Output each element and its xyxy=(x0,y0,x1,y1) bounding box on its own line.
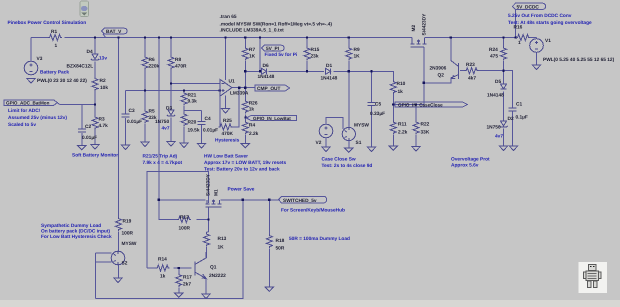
wire C4 branch xyxy=(201,111,203,144)
switch S1 xyxy=(342,127,355,140)
svg-text:D4: D4 xyxy=(87,49,93,55)
wire 5V_DCDC label tick xyxy=(515,9,517,37)
svg-text:470K: 470K xyxy=(222,131,234,137)
wire C2 branch xyxy=(81,105,83,146)
svg-text:.INCLUDE LM339A.5_1_0.txt: .INCLUDE LM339A.5_1_0.txt xyxy=(220,28,285,34)
svg-text:1: 1 xyxy=(55,43,58,49)
wire R18 column x=269.4 xyxy=(268,200,270,287)
wire D5 D2 chain xyxy=(503,71,505,146)
resistor R25 xyxy=(219,124,233,130)
svg-text:R25: R25 xyxy=(223,118,232,124)
resistor R24 xyxy=(501,47,507,61)
wire U1 plus-ref row xyxy=(171,83,220,85)
svg-text:Pinebox Power Control Simulati: Pinebox Power Control Simulation xyxy=(8,20,87,26)
svg-text:220k: 220k xyxy=(149,64,160,70)
svg-text:R23: R23 xyxy=(466,62,475,68)
svg-text:33K: 33K xyxy=(421,130,430,136)
svg-text:Approx 17v = LOW BATT, 19v res: Approx 17v = LOW BATT, 19v resets xyxy=(204,160,286,166)
wire Q1 emitter drop xyxy=(205,279,207,294)
svg-text:R6: R6 xyxy=(149,57,155,63)
svg-text:R1: R1 xyxy=(51,29,57,35)
svg-text:R4: R4 xyxy=(249,123,255,129)
svg-text:U1: U1 xyxy=(229,79,235,85)
svg-text:0.01µF: 0.01µF xyxy=(127,119,142,125)
svg-text:R18: R18 xyxy=(276,238,285,244)
ground under C5 xyxy=(367,147,375,151)
svg-text:0.1µF: 0.1µF xyxy=(516,115,528,121)
svg-text:1K: 1K xyxy=(354,54,361,60)
svg-text:1K: 1K xyxy=(249,54,256,60)
wire R22 column x=416 xyxy=(415,105,417,147)
resistor R15 xyxy=(304,47,310,61)
svg-text:Overvoltage Prot: Overvoltage Prot xyxy=(451,157,490,163)
svg-text:V1: V1 xyxy=(545,38,551,44)
svg-text:M2: M2 xyxy=(411,25,417,32)
svg-text:Test: 2s to 4s close 9d: Test: 2s to 4s close 9d xyxy=(322,163,373,169)
ground under C4 xyxy=(197,144,205,148)
svg-text:Fixed 5v for Pi: Fixed 5v for Pi xyxy=(265,52,298,58)
resistor R21 xyxy=(181,92,187,106)
transistor Q1 xyxy=(195,252,206,279)
wire ground return bottom rail xyxy=(96,200,243,299)
svg-text:R19: R19 xyxy=(123,219,132,225)
resistor R9 xyxy=(346,47,352,61)
node 5V_DCDC flag xyxy=(513,3,546,10)
ground under R22 xyxy=(412,147,420,151)
svg-text:PWL(0 5.25 40 5.25 55 12 65 12: PWL(0 5.25 40 5.25 55 12 65 12) xyxy=(543,57,615,63)
svg-text:1N750: 1N750 xyxy=(487,125,501,131)
ground under R5 xyxy=(141,142,149,146)
wire 5v row y=71.3 xyxy=(245,71,393,80)
capacitor C5 xyxy=(368,103,376,106)
svg-text:R8: R8 xyxy=(175,57,181,63)
wire U1 V- to ground xyxy=(225,96,227,109)
wire R9 S1 column x=348.8 xyxy=(348,38,350,149)
svg-text:2.2k: 2.2k xyxy=(249,131,259,137)
ground under C1 xyxy=(509,146,517,150)
ground under V3 xyxy=(27,79,35,83)
svg-text:0.01µF: 0.01µF xyxy=(82,135,97,141)
wire R8 D3 column x=171 xyxy=(170,38,172,142)
svg-text:1N4148: 1N4148 xyxy=(321,76,338,82)
svg-text:Si4423DY: Si4423DY xyxy=(422,13,428,36)
svg-text:D1: D1 xyxy=(326,63,332,69)
svg-text:Case Close Sw: Case Close Sw xyxy=(322,157,356,163)
wire M2 gate drop x=423.8 xyxy=(423,47,425,105)
svg-text:MYSW: MYSW xyxy=(122,241,137,247)
svg-text:Power Save: Power Save xyxy=(228,187,255,193)
svg-text:V3: V3 xyxy=(37,56,43,62)
node 5V_PI flag xyxy=(262,45,285,52)
node GPIO_IN_LowBat flag xyxy=(246,115,296,121)
svg-text:PWL(0 23 30 12 40 22): PWL(0 23 30 12 40 22) xyxy=(37,78,87,84)
svg-text:Test: Battery 20v to 12v and b: Test: Battery 20v to 12v and back xyxy=(204,167,280,173)
svg-text:0.33µF: 0.33µF xyxy=(370,111,385,117)
ground under C3 xyxy=(121,145,129,149)
svg-text:BZX84C12L: BZX84C12L xyxy=(67,64,94,70)
svg-text:1: 1 xyxy=(518,40,521,46)
svg-text:CMP_OUT: CMP_OUT xyxy=(257,86,281,92)
resistor R18 xyxy=(266,234,272,248)
svg-text:2N3906: 2N3906 xyxy=(430,66,447,72)
ground under R11 xyxy=(389,146,397,150)
svg-text:Sympathetic Dummy Load: Sympathetic Dummy Load xyxy=(41,223,101,229)
svg-text:SWITCHED_5v: SWITCHED_5v xyxy=(283,198,317,204)
svg-text:S2: S2 xyxy=(122,261,128,267)
svg-text:100R: 100R xyxy=(122,231,134,237)
resistor R13 xyxy=(204,233,210,247)
svg-text:1k: 1k xyxy=(398,89,404,95)
svg-text:D6: D6 xyxy=(263,63,269,69)
wire R6 R5 column x=145 xyxy=(144,38,146,143)
svg-text:4v7: 4v7 xyxy=(495,134,503,140)
svg-text:R3: R3 xyxy=(99,117,105,123)
svg-text:Soft Battery Monitor: Soft Battery Monitor xyxy=(72,153,118,159)
wire U1 output to CMP_OUT xyxy=(232,87,255,89)
resistor R20 xyxy=(181,113,187,127)
resistor R22 xyxy=(413,121,419,135)
svg-text:C3: C3 xyxy=(129,108,135,114)
wire V2 to S1 control xyxy=(326,118,343,148)
svg-text:7.9k x 4 = 4.7kpot: 7.9k x 4 = 4.7kpot xyxy=(143,160,183,166)
wire Q2 emitter from bus xyxy=(450,38,452,61)
wire R21 R20 column x=184 xyxy=(183,91,185,144)
svg-text:4v7: 4v7 xyxy=(162,126,170,132)
svg-text:100R: 100R xyxy=(179,226,191,232)
resistor R2 xyxy=(92,77,98,91)
ground under R3 xyxy=(91,145,99,149)
resistor R16 xyxy=(516,35,530,41)
svg-text:50R: 50R xyxy=(276,246,285,252)
resistor R7 xyxy=(242,47,248,61)
svg-text:R13: R13 xyxy=(218,236,227,242)
svg-text:470R: 470R xyxy=(175,64,187,70)
svg-text:1N750: 1N750 xyxy=(155,119,169,125)
wire Q2 collector to M2 gate xyxy=(424,78,451,83)
diode D6 xyxy=(262,68,267,74)
svg-text:1k: 1k xyxy=(160,274,166,280)
wire R10 R11 column x=393.3 xyxy=(392,94,394,147)
svg-text:D5: D5 xyxy=(495,79,501,85)
capacitor C3 xyxy=(122,114,130,117)
capacitor C1 xyxy=(509,108,517,111)
ground under S1 xyxy=(345,148,353,152)
wire C3 branch xyxy=(125,91,127,146)
ground under V1 xyxy=(532,65,540,69)
wire R15 column x=307 xyxy=(306,38,308,72)
wire C1 branch xyxy=(504,71,513,146)
svg-text:2N2222: 2N2222 xyxy=(209,273,226,279)
svg-text:5V_PI: 5V_PI xyxy=(266,46,280,52)
wire R17 branch xyxy=(178,268,180,293)
svg-text:R2: R2 xyxy=(100,78,106,84)
svg-text:LM339A: LM339A xyxy=(230,91,249,97)
resistor R1 xyxy=(48,35,62,41)
resistor R6 xyxy=(142,56,148,70)
wire S2 control stubs and left drop xyxy=(96,253,112,299)
svg-text:M1: M1 xyxy=(214,189,220,196)
svg-text:5V_DCDC: 5V_DCDC xyxy=(517,4,540,10)
svg-text:D2: D2 xyxy=(508,116,514,122)
svg-text:10k: 10k xyxy=(100,85,108,91)
resistor R23 xyxy=(465,68,479,74)
robot watermark icon xyxy=(579,262,608,293)
svg-text:1K: 1K xyxy=(218,245,225,251)
wire R21R20 node to C4 row xyxy=(184,110,202,112)
svg-text:R15: R15 xyxy=(311,47,320,53)
svg-text:R22: R22 xyxy=(421,122,430,128)
svg-text:C5: C5 xyxy=(375,102,381,108)
svg-text:C1: C1 xyxy=(516,102,522,108)
svg-text:R20: R20 xyxy=(188,120,197,126)
diode D1 xyxy=(326,68,331,74)
ground under S2 xyxy=(114,278,122,282)
wire R24 column x=503.5 xyxy=(503,38,505,71)
voltage source V2 xyxy=(319,124,333,138)
wire R23 to overvoltage node xyxy=(479,70,504,72)
switch S2 xyxy=(111,251,125,265)
svg-text:Battery Pack: Battery Pack xyxy=(40,70,69,76)
svg-text:On battery pack (DC/DC input): On battery pack (DC/DC input) xyxy=(41,229,110,235)
svg-text:GPIO_IN_LowBat: GPIO_IN_LowBat xyxy=(253,116,291,121)
svg-text:For Low Batt Hysteresis Check: For Low Batt Hysteresis Check xyxy=(41,234,112,240)
svg-text:R21: R21 xyxy=(188,93,197,99)
svg-text:R10: R10 xyxy=(397,81,406,87)
toolbar icon top xyxy=(80,1,89,17)
mosfet M1 xyxy=(206,200,222,207)
svg-text:C4: C4 xyxy=(205,116,211,122)
node SWITCHED_5v flag xyxy=(279,196,327,204)
svg-text:Approx 5.6v: Approx 5.6v xyxy=(451,163,479,169)
wire Q2 base to R23 xyxy=(460,70,464,72)
svg-text:Q1: Q1 xyxy=(210,265,217,271)
resistor R12 xyxy=(177,217,191,223)
svg-text:GPIO_IN_CaseClose: GPIO_IN_CaseClose xyxy=(398,103,443,108)
svg-text:R14: R14 xyxy=(158,257,167,263)
svg-text:BAT_V: BAT_V xyxy=(106,29,122,35)
svg-text:Q2: Q2 xyxy=(438,73,445,79)
zener D2 xyxy=(499,121,507,127)
svg-text:1N4148: 1N4148 xyxy=(258,74,275,80)
svg-text:.tran 65: .tran 65 xyxy=(220,14,237,20)
svg-text:13v: 13v xyxy=(99,56,107,62)
resistor R11 xyxy=(390,121,396,135)
svg-text:Scaled to 5v: Scaled to 5v xyxy=(8,122,36,128)
svg-text:Test: At 48s starts going over: Test: At 48s starts going overvoltage xyxy=(508,20,592,26)
svg-text:4k7: 4k7 xyxy=(468,76,476,82)
resistor R3 xyxy=(92,116,98,130)
ground under D2 xyxy=(499,146,507,150)
mosfet M2 xyxy=(411,38,427,48)
ground under R18 xyxy=(265,287,273,291)
svg-text:4.7k: 4.7k xyxy=(99,123,109,129)
voltage source V3 xyxy=(24,61,38,75)
resistor R14 xyxy=(156,265,170,271)
svg-text:1N4148: 1N4148 xyxy=(487,93,504,99)
svg-text:D3: D3 xyxy=(166,106,172,112)
resistor R19 xyxy=(116,217,122,231)
svg-text:R26: R26 xyxy=(249,101,258,107)
wire ADC label row xyxy=(58,103,96,105)
svg-text:9.3k: 9.3k xyxy=(188,99,198,105)
ground under C2 xyxy=(78,146,86,150)
node CMP_OUT flag xyxy=(255,85,290,92)
wire power save rail y=199.8 xyxy=(159,199,280,201)
wire power save feed from bus x=159 xyxy=(158,38,160,200)
transistor Q2 xyxy=(451,61,459,80)
svg-text:MYSW: MYSW xyxy=(354,123,369,129)
voltage source V1 xyxy=(530,39,544,53)
svg-text:HW Low Batt Saver: HW Low Batt Saver xyxy=(204,154,248,160)
svg-text:1k: 1k xyxy=(249,107,255,113)
ground under V2 xyxy=(322,147,330,151)
svg-text:0.01µF: 0.01µF xyxy=(203,128,218,134)
svg-text:R12: R12 xyxy=(180,215,189,221)
wire U1 divider input row xyxy=(126,90,220,92)
svg-text:R9: R9 xyxy=(354,47,360,53)
svg-text:2.2k: 2.2k xyxy=(398,130,408,136)
resistor R8 xyxy=(168,56,174,70)
wire battery column x=95 xyxy=(94,38,96,145)
node GPIO_IN_CaseClose flag xyxy=(395,102,468,108)
ground under R4 xyxy=(241,144,249,148)
wire U1 V+ from bus xyxy=(225,38,227,81)
diode D5 xyxy=(501,84,507,89)
resistor R26 xyxy=(242,100,248,114)
svg-text:R5: R5 xyxy=(149,109,155,115)
resistor R17 xyxy=(176,273,182,287)
svg-text:R11: R11 xyxy=(398,122,407,128)
wire M1 gate to R13 xyxy=(207,207,209,232)
svg-text:23k: 23k xyxy=(311,54,319,60)
svg-text:C2: C2 xyxy=(85,124,91,130)
svg-text:S1: S1 xyxy=(356,140,362,146)
wire M1 gate net from R14 column xyxy=(147,171,209,268)
svg-text:Si4423DY: Si4423DY xyxy=(206,173,212,196)
resistor R4 xyxy=(242,121,248,135)
ground under D3 xyxy=(167,142,175,146)
resistor R5 xyxy=(142,110,148,124)
svg-text:R24: R24 xyxy=(489,47,498,53)
svg-text:Assumed 25v (minus 12v): Assumed 25v (minus 12v) xyxy=(8,115,67,121)
wire R19 S2 column x=118.5 xyxy=(118,38,120,279)
wire BAT_V bus top rail xyxy=(31,37,537,39)
svg-text:R21/25 Trip Adj: R21/25 Trip Adj xyxy=(143,154,177,160)
wire C5 branch x=371.5 xyxy=(371,71,373,147)
wire R7 column R26 R4 chain x=245.3 xyxy=(244,38,246,144)
wire V1 leads xyxy=(536,38,538,66)
wire R13 to Q1 collector xyxy=(206,232,208,258)
svg-text:R7: R7 xyxy=(249,47,255,53)
node GPIO_ADC_BatMon flag xyxy=(4,100,58,106)
ground under R17 xyxy=(175,293,183,297)
wire R12 drop and row xyxy=(159,200,209,220)
node BAT_V flag xyxy=(102,28,128,37)
svg-text:.model MYSW SW(Ron=1 Roff=1Meg: .model MYSW SW(Ron=1 Roff=1Meg vt=.5 vh=… xyxy=(220,22,333,28)
svg-text:GPIO_ADC_BatMon: GPIO_ADC_BatMon xyxy=(6,101,50,106)
svg-text:V2: V2 xyxy=(316,140,322,146)
svg-text:50R = 100ma Dummy Load: 50R = 100ma Dummy Load xyxy=(289,236,350,242)
wire 5V_PI column x=260 xyxy=(259,38,261,72)
op-amp U1 LM339A xyxy=(220,79,232,96)
wire V3 top lead xyxy=(30,38,32,62)
svg-text:19.5k: 19.5k xyxy=(188,128,200,134)
svg-text:For Screen/Keyb/MouseHub: For Screen/Keyb/MouseHub xyxy=(281,208,345,214)
svg-text:2k7: 2k7 xyxy=(183,282,191,288)
wire Q1 base row xyxy=(147,267,192,269)
ground under R20 xyxy=(180,143,188,147)
wire gate label row y=104.5 xyxy=(393,104,424,106)
svg-text:5.25v Out From DCDC Conv: 5.25v Out From DCDC Conv xyxy=(508,13,572,19)
capacitor C4 xyxy=(198,122,206,125)
svg-text:R17: R17 xyxy=(183,275,192,281)
zener D3 xyxy=(167,110,175,116)
svg-text:Limit for ADC!: Limit for ADC! xyxy=(8,108,41,114)
capacitor C2 xyxy=(78,129,86,132)
ground under U1 xyxy=(221,109,229,113)
ground under Q1 xyxy=(202,294,210,298)
svg-text:475: 475 xyxy=(490,54,498,60)
svg-text:Hysteresis: Hysteresis xyxy=(215,138,240,144)
wire hysteresis feedback vertical xyxy=(219,88,240,127)
zener D4 xyxy=(91,54,99,60)
resistor R10 xyxy=(390,80,396,94)
